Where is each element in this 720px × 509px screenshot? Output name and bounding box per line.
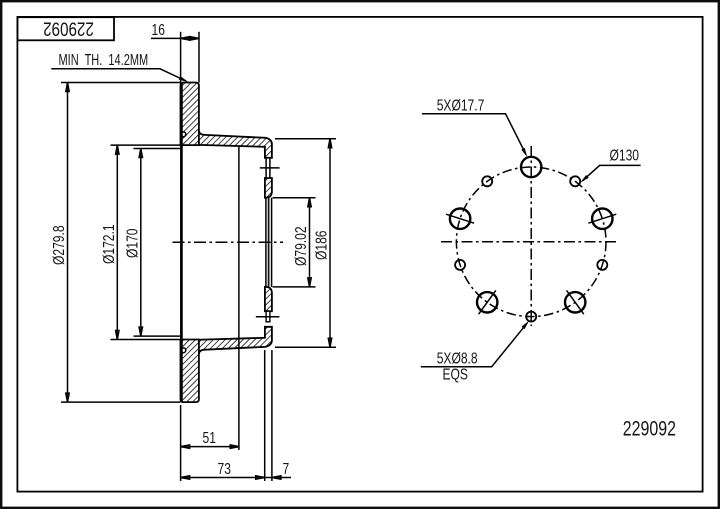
extension line dia79.02 bottom — [273, 286, 316, 288]
radial tick upper-left hole — [446, 214, 474, 223]
svg-text:51: 51 — [203, 429, 217, 447]
radial tick upper-right hole — [588, 214, 616, 223]
svg-text:229092: 229092 — [43, 18, 94, 40]
svg-text:Ø79.02: Ø79.02 — [292, 226, 310, 266]
bolt hole lower-left (17.7) — [477, 292, 497, 312]
dim line dia170 — [139, 149, 142, 337]
svg-text:7: 7 — [283, 460, 290, 478]
bolt hole upper-left (17.7) — [450, 209, 470, 229]
rotor left face (thick) — [180, 83, 183, 403]
svg-text:EQS: EQS — [443, 365, 468, 383]
dim line dia79.02 — [308, 198, 311, 287]
undercut groove bottom — [181, 348, 186, 353]
small hole upper-left (8.8) — [482, 176, 492, 186]
horizontal centerline — [441, 241, 618, 243]
hat flange top (hatched) — [199, 131, 272, 158]
bolt hole centerline bottom — [256, 316, 280, 318]
svg-text:229092: 229092 — [623, 416, 676, 440]
bore silhouette line 3 — [271, 198, 273, 287]
small hole upper-right (8.8) — [570, 176, 580, 186]
16 dim extension lines — [180, 32, 182, 83]
svg-text:16: 16 — [152, 21, 166, 39]
radial tick lower-left hole — [479, 290, 496, 314]
extension line dia172.1 bottom — [111, 339, 181, 341]
title block box — [17, 17, 114, 40]
bolt hole lower-right (17.7) — [565, 292, 585, 312]
small hole bottom (8.8) — [526, 312, 536, 322]
dim line dia172.1 — [116, 145, 119, 339]
bolt hole rear silhouette in top gap — [266, 158, 270, 178]
svg-text:Ø172.1: Ø172.1 — [99, 224, 117, 264]
16 dim line and arrows — [151, 37, 199, 40]
rotor bar bottom section (hatched) — [181, 340, 199, 403]
bolt hole centerline top — [260, 167, 280, 169]
extension line dia186 top — [275, 138, 336, 140]
svg-text:Ø186: Ø186 — [312, 230, 330, 260]
bore silhouette line 1 — [265, 198, 267, 287]
bolt circle dia130 (dash-dot) — [456, 167, 606, 317]
extension line dia186 bottom — [275, 346, 336, 348]
hub crown wall below top bolt hole (hatched) — [265, 178, 272, 198]
small hole right (8.8) — [597, 260, 607, 270]
undercut groove top — [181, 132, 186, 137]
svg-text:MIN TH. 14.2MM: MIN TH. 14.2MM — [59, 51, 149, 68]
extension line dia170 top — [134, 148, 181, 150]
svg-text:Ø170: Ø170 — [123, 228, 141, 258]
svg-text:73: 73 — [218, 460, 232, 478]
extension line dia279.8 top — [61, 82, 181, 84]
dim line dia279.8 — [66, 83, 69, 403]
main axis centerline — [173, 241, 284, 243]
dim line dia186 — [328, 139, 331, 347]
51 dim — [180, 405, 182, 481]
extension line dia170 bottom — [134, 335, 181, 337]
svg-text:Ø279.8: Ø279.8 — [50, 225, 68, 265]
bolt hole upper-right (17.7) — [592, 209, 612, 229]
bolt hole top (17.7) — [521, 157, 541, 177]
hat cavity floor silhouette / 51 extension — [238, 147, 240, 450]
svg-text:5XØ17.7: 5XØ17.7 — [437, 96, 485, 114]
73 dim — [264, 350, 266, 481]
bore silhouette line 2 — [268, 198, 270, 287]
small hole left (8.8) — [455, 260, 465, 270]
svg-text:Ø130: Ø130 — [610, 146, 640, 164]
extension line dia172.1 top — [111, 144, 181, 146]
radial tick lower-right hole — [567, 290, 584, 314]
rotor bar top section (hatched) — [181, 83, 199, 146]
vertical centerline — [530, 146, 532, 326]
extension line dia79.02 top — [273, 197, 316, 199]
extension line dia279.8 bottom — [61, 401, 181, 403]
MIN TH leader — [51, 69, 186, 81]
hat flange bottom (hatched) — [199, 327, 272, 354]
bolt hole rear silhouette in bottom gap — [266, 311, 270, 322]
hub crown wall above bottom bolt hole (hatched) — [265, 287, 272, 311]
